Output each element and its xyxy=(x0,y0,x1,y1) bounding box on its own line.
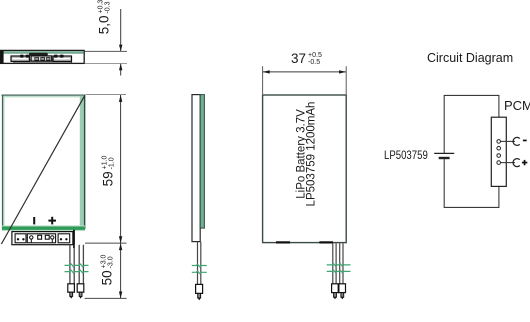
front view connector left cell xyxy=(15,234,26,243)
circuit loop wire left xyxy=(443,95,445,153)
side view battery bar xyxy=(192,95,204,242)
top view battery body xyxy=(0,50,84,63)
labeled view wire break mark lower xyxy=(327,270,351,273)
front view connector middle cell xyxy=(27,234,55,243)
labeled view pin 2 xyxy=(339,284,346,300)
dimension 59 extension line top xyxy=(86,94,127,96)
dimension 37 extension lines xyxy=(263,66,347,94)
front view diagonal fold line xyxy=(1,95,84,244)
front view battery outline xyxy=(2,95,86,230)
minus label xyxy=(523,140,527,142)
negative output lead xyxy=(501,140,515,142)
positive output connector arc xyxy=(513,159,520,167)
dimension 5.0 leader and arrows xyxy=(119,9,122,76)
dimension 50 extension line bottom xyxy=(85,297,127,299)
dimension 50 leader line and arrows xyxy=(119,243,122,298)
labeled view outline xyxy=(263,95,347,243)
PCM block xyxy=(491,117,506,186)
top view left component block xyxy=(11,55,30,62)
side view wire xyxy=(198,242,201,284)
shared extension line mid xyxy=(85,242,127,244)
front view wire break mark lower xyxy=(65,270,89,273)
circuit diagram title xyxy=(427,51,513,65)
dimension 37 leader line and arrows xyxy=(263,70,346,73)
battery cell symbol LP503759 xyxy=(434,153,454,158)
dimension text 59 xyxy=(100,156,115,187)
front view pin 2 xyxy=(77,284,84,299)
negative output connector arc xyxy=(513,137,520,145)
labeled view pin 1 xyxy=(332,284,339,300)
PCM pad 3 xyxy=(497,154,501,158)
labeled view wire 2 xyxy=(340,243,343,284)
front view connector right cell xyxy=(58,234,70,243)
dimension 59 leader line and arrows xyxy=(119,95,122,243)
front view wire 2 xyxy=(79,245,83,284)
battery reference label xyxy=(384,148,428,162)
labeled view wire break mark upper xyxy=(327,264,351,267)
circuit loop wire left lower xyxy=(443,158,445,207)
PCM pad 1 xyxy=(497,140,501,144)
labeled view wire 1 xyxy=(333,243,336,284)
dimension 5.0 extension line bottom xyxy=(85,63,127,65)
front view pin 1 xyxy=(68,284,75,299)
circuit loop wire right lower xyxy=(498,186,500,207)
PCM pad 2 xyxy=(497,146,501,150)
side view wire break mark lower xyxy=(192,271,207,274)
battery label text xyxy=(298,101,317,206)
top view right component block xyxy=(53,55,72,62)
front view plus polarity mark xyxy=(48,217,56,225)
dimension 5.0 extension line top xyxy=(85,50,127,52)
front view wire 1 xyxy=(70,245,74,284)
circuit loop wire right upper xyxy=(498,95,500,117)
top view connector assembly base bar xyxy=(14,60,72,63)
top view middle component block xyxy=(29,53,52,61)
positive output lead xyxy=(501,162,515,164)
dimension text 37 xyxy=(291,51,322,66)
circuit loop wire bottom xyxy=(444,206,500,208)
dimension text 50 xyxy=(100,255,115,286)
front view wire exit post xyxy=(73,230,75,248)
PCM label xyxy=(504,98,530,113)
side view wire break mark upper xyxy=(192,264,207,267)
front view wire break mark upper xyxy=(65,264,89,267)
side view pin xyxy=(196,284,203,300)
PCM pad 4 xyxy=(497,161,501,165)
dimension text 5.0 xyxy=(97,0,112,34)
front view connector housing xyxy=(12,232,73,245)
circuit loop wire top xyxy=(444,94,500,96)
front view minus polarity mark xyxy=(33,217,35,224)
plus label xyxy=(522,160,527,165)
